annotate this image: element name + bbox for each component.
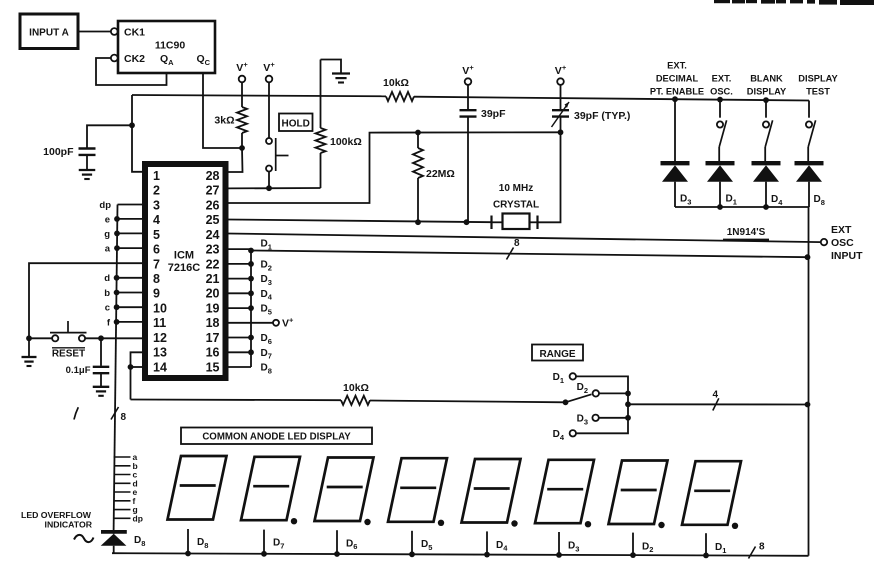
pushbutton HOLD bottom contact [266, 166, 272, 172]
svg-text:b: b [104, 288, 110, 299]
svg-text:10kΩ: 10kΩ [383, 77, 409, 89]
wire pin 16 D7 stub [228, 348, 272, 361]
ground below 100pF [79, 170, 96, 179]
svg-text:20: 20 [206, 287, 220, 301]
svg-text:CRYSTAL: CRYSTAL [493, 200, 539, 211]
LED digit 1 outline [682, 461, 741, 525]
op-amp U1 ICM7216C (28-pin DIP) [145, 164, 226, 378]
wire pin segment c stub [105, 303, 142, 314]
wire pin 26 to oscillator [228, 132, 561, 203]
bus slash 8 (segment lines) [111, 407, 127, 423]
svg-text:8: 8 [759, 542, 765, 553]
wire pin 23 D1 stub [228, 248, 251, 250]
svg-text:19: 19 [206, 302, 220, 316]
capacitor C4 0.1uF [93, 338, 110, 386]
trimmer capacitor C3 39pF [552, 85, 570, 133]
switch ext osc sw [717, 100, 727, 164]
svg-text:ICM: ICM [174, 250, 194, 262]
label 39pF [481, 108, 506, 120]
decimal point digit 6 [364, 519, 370, 525]
node digit D3 on rail [556, 552, 562, 558]
wire range feed line [131, 399, 342, 402]
label 3kOhm [214, 115, 234, 127]
node digit D7 on rail [261, 551, 267, 557]
wire range contacts bracket [576, 376, 628, 433]
ground (reset) [22, 338, 37, 366]
label D2 (digit) [642, 541, 653, 554]
wire 10k to switch common [370, 401, 566, 403]
ground (0.1uF) [93, 387, 110, 396]
svg-text:2: 2 [153, 184, 160, 198]
wire pin segment d stub [104, 273, 142, 284]
label 100kOhm [330, 136, 362, 148]
svg-text:17: 17 [206, 331, 220, 345]
wire QC output down to node [203, 73, 240, 148]
decimal point digit 4 [511, 520, 517, 526]
wire 100k top to ground [321, 60, 342, 74]
svg-text:OSC: OSC [831, 237, 854, 249]
D bus vertical [250, 249, 252, 367]
label D8 (LED) [134, 535, 145, 548]
wire V+ rail right segment [414, 97, 809, 101]
resistor R5 10k (range) [341, 396, 370, 405]
node bracket D3 [625, 415, 631, 421]
wire pin segment e stub [105, 214, 142, 225]
wire diode bottom bus [675, 206, 809, 208]
svg-text:INPUT: INPUT [831, 250, 863, 262]
LED digit 5 outline [388, 458, 447, 522]
node pin7/ground/reset [26, 335, 32, 341]
label 0.1uF [66, 365, 91, 376]
svg-text:23: 23 [206, 243, 220, 257]
node digit D6 on rail [334, 551, 340, 557]
resistor R4 22M [413, 133, 423, 223]
wire pin 15 D8 stub [228, 363, 272, 376]
label box RANGE [532, 345, 583, 361]
svg-text:22: 22 [206, 257, 220, 271]
svg-text:BLANK: BLANK [750, 74, 783, 84]
node digit D1 on rail [703, 553, 709, 559]
svg-text:e: e [105, 214, 110, 225]
pushbutton RESET [50, 321, 87, 341]
svg-text:DISPLAY: DISPLAY [747, 87, 787, 97]
decimal point digit 7 [291, 518, 297, 524]
wire reset to pin 12 [85, 337, 142, 339]
stray mark J [74, 407, 78, 419]
svg-text:OSC.: OSC. [710, 87, 733, 97]
bus slash 8 (bottom rail) [749, 542, 766, 559]
terminal V+ (trimmer) [555, 63, 567, 85]
label RESET (overline) [52, 348, 85, 360]
connector INPUT A [20, 14, 78, 49]
svg-text:1N914'S: 1N914'S [727, 227, 766, 238]
svg-text:7216C: 7216C [168, 262, 200, 274]
svg-text:28: 28 [206, 169, 220, 183]
segment bus vertical [114, 205, 118, 532]
wire digit drive D5 stub [411, 531, 413, 555]
inverter bubble CK1 [111, 28, 118, 35]
node digit D4 on rail [484, 552, 490, 558]
svg-text:18: 18 [206, 316, 220, 330]
bus slash 8 (D lines) [507, 238, 521, 260]
wire pin 7 to reset [29, 263, 142, 338]
svg-text:dp: dp [133, 513, 143, 523]
wire pin 19 D5 stub [228, 304, 272, 317]
svg-text:8: 8 [514, 238, 520, 249]
wire 100pF branch [87, 125, 132, 147]
svg-text:9: 9 [153, 287, 160, 301]
node D bus right [805, 254, 811, 260]
svg-text:EXT.: EXT. [667, 61, 687, 71]
node diode bus col3 [763, 204, 769, 210]
label D1 [726, 194, 737, 207]
svg-text:39pF: 39pF [481, 108, 506, 120]
svg-text:c: c [105, 303, 110, 314]
LED digit 7 outline [241, 457, 300, 520]
terminal V+ pin 18 [228, 315, 294, 329]
svg-text:27: 27 [206, 184, 220, 198]
svg-text:1: 1 [153, 169, 160, 183]
svg-text:11: 11 [153, 316, 166, 330]
svg-text:100kΩ: 100kΩ [330, 136, 362, 148]
terminal V+ (39pF) [462, 63, 474, 85]
capacitor C2 39pF [460, 85, 477, 222]
node digit D2 on rail [630, 552, 636, 558]
wire digit drive D3 stub [558, 532, 560, 555]
wire V+ rail left segment (pin1 to 10k) [132, 95, 386, 96]
LED digit 3 outline [535, 460, 594, 523]
switch display test sw [806, 101, 816, 164]
svg-text:4: 4 [713, 390, 719, 401]
label D1 (bus) [261, 239, 272, 252]
label 10 MHz CRYSTAL [493, 183, 539, 211]
svg-text:6: 6 [153, 243, 160, 257]
label 10kOhm bottom [343, 382, 369, 394]
wire pin segment a stub [105, 244, 142, 255]
label EXT. DECIMAL PT. ENABLE [650, 61, 704, 97]
prescaler U2 11C90 [118, 21, 215, 73]
svg-text:INPUT A: INPUT A [29, 28, 69, 39]
node bracket D2 [625, 391, 631, 397]
svg-text:10 MHz: 10 MHz [499, 183, 533, 194]
label 39pF (TYP.) [574, 110, 630, 122]
label D4 [771, 194, 783, 207]
wire pin 1 riser [132, 95, 142, 172]
wire switch to pin27 line [268, 172, 270, 189]
contact D1 (range) [553, 372, 576, 385]
svg-text:RESET: RESET [52, 349, 85, 360]
label D6 (digit) [346, 538, 357, 551]
contact D4 (range) [553, 429, 576, 442]
label dp [99, 200, 111, 211]
label D4 (digit) [496, 540, 508, 553]
bus slash 4 (range lines) [713, 390, 719, 411]
node range/right bus [805, 402, 811, 408]
svg-text:dp: dp [99, 200, 111, 211]
diode D3 [661, 163, 690, 207]
svg-text:RANGE: RANGE [539, 349, 575, 360]
svg-text:100pF: 100pF [43, 146, 74, 158]
node 22M top [415, 130, 421, 136]
svg-text:DISPLAY: DISPLAY [798, 74, 838, 84]
svg-text:10: 10 [153, 302, 167, 316]
LED digit 2 outline [609, 461, 668, 525]
LED digit 8 outline [168, 456, 227, 520]
svg-text:15: 15 [206, 360, 220, 374]
crystal Y1 10MHz [492, 214, 538, 230]
node 100pF junction [129, 122, 135, 128]
label D7 (digit) [273, 538, 284, 551]
wire INPUT A to CK1 [78, 31, 111, 33]
svg-text:4: 4 [153, 213, 160, 227]
node digit D8 on rail [185, 551, 191, 557]
LED digit 6 outline [315, 458, 374, 522]
node trimmer bottom [558, 129, 564, 135]
node QC/3k/pin28 [239, 145, 245, 151]
svg-text:3kΩ: 3kΩ [214, 115, 234, 127]
label D8 (digit) [197, 537, 208, 550]
svg-text:CK2: CK2 [124, 53, 145, 65]
wire D bus line to right [251, 251, 808, 258]
svg-text:COMMON ANODE LED DISPLAY: COMMON ANODE LED DISPLAY [202, 432, 351, 443]
label LED OVERFLOW INDICATOR [21, 510, 93, 530]
node D bus left [248, 248, 254, 254]
label 22MOhm [426, 168, 455, 180]
wire trimmer to crystal [538, 132, 561, 222]
terminal EXT OSC INPUT [821, 239, 827, 245]
svg-text:11C90: 11C90 [155, 40, 186, 52]
wire pin 22 D2 stub [228, 260, 272, 273]
switch arm (range) [566, 394, 592, 402]
wire digit drive D8 stub [187, 529, 189, 554]
svg-text:EXT: EXT [831, 224, 852, 236]
node digit D5 on rail [409, 551, 415, 557]
wire pin 14 [131, 366, 143, 368]
svg-text:TEST: TEST [806, 87, 830, 97]
wire V+ to switch [268, 82, 270, 138]
decimal point digit 1 [732, 523, 738, 529]
label 1N914'S [723, 227, 769, 240]
svg-text:LED OVERFLOW: LED OVERFLOW [21, 510, 92, 520]
resistor R1 10k (top rail) [386, 92, 414, 101]
wire pin segment b stub [104, 288, 142, 299]
terminal V+ (HOLD switch) [263, 60, 275, 82]
svg-text:26: 26 [206, 198, 220, 212]
ac tilde mark [74, 535, 94, 542]
wire pin 27 line [228, 187, 321, 189]
svg-text:25: 25 [206, 213, 220, 227]
ground (100k) [332, 74, 350, 83]
node rail col3 [763, 97, 769, 103]
svg-text:3: 3 [153, 198, 160, 212]
terminal V+ (3k pullup) [236, 60, 248, 82]
svg-text:13: 13 [153, 346, 167, 360]
wire pin segment g stub [104, 229, 142, 240]
label D1 (digit) [715, 542, 726, 555]
wire pin 25 crystal line [228, 220, 492, 223]
wire pin 13 [131, 352, 143, 399]
wire digit drive D1 stub [705, 533, 707, 555]
node pin13/14 [128, 364, 134, 370]
label box COMMON ANODE LED DISPLAY [181, 428, 372, 445]
decimal point digit 2 [658, 522, 664, 528]
svg-text:EXT.: EXT. [712, 74, 732, 84]
label DISPLAY TEST [798, 74, 838, 97]
label D3 [680, 194, 691, 207]
wire range to right bus [628, 403, 808, 405]
LED overflow diode D8 [101, 531, 127, 553]
svg-text:12: 12 [153, 331, 167, 345]
svg-text:d: d [104, 273, 110, 284]
node range common [563, 399, 569, 405]
diode D8 [795, 163, 824, 207]
resistor R2 3k [237, 82, 247, 148]
wire digit drive D6 stub [336, 530, 338, 554]
svg-text:16: 16 [206, 346, 220, 360]
svg-text:8: 8 [121, 412, 127, 423]
wire right vertical bus [808, 207, 810, 556]
wire QA feedback to CK2 [96, 58, 167, 85]
capacitor C1 100pF [79, 149, 96, 170]
svg-text:39pF (TYP.): 39pF (TYP.) [574, 110, 630, 122]
svg-text:INDICATOR: INDICATOR [45, 520, 93, 530]
svg-text:24: 24 [206, 228, 220, 242]
svg-text:g: g [104, 229, 110, 240]
decimal point digit 3 [585, 521, 591, 527]
pushbutton HOLD actuator [276, 138, 289, 171]
node rail col1 [672, 96, 678, 102]
wire digit drive D2 stub [632, 533, 634, 556]
svg-text:22MΩ: 22MΩ [426, 168, 455, 180]
segment stubs a-dp at display [114, 452, 143, 523]
logo fragment (cropped intersil logotype) [714, 0, 874, 5]
contact D2 (range) [577, 382, 599, 397]
wire pin 3 dp stub [118, 204, 143, 206]
label BLANK DISPLAY [747, 74, 787, 97]
label EXT OSC INPUT [831, 224, 863, 262]
inverter bubble CK2 [111, 55, 118, 62]
node HOLD/pin27 [266, 185, 272, 191]
svg-text:14: 14 [153, 360, 167, 374]
wire pin 17 D6 stub [228, 333, 272, 346]
svg-text:PT. ENABLE: PT. ENABLE [650, 87, 704, 97]
svg-text:a: a [105, 244, 111, 255]
node pin12/cap [98, 335, 104, 341]
wire col1 down [674, 99, 676, 163]
wire pin 24 ext osc line [228, 234, 821, 243]
svg-text:5: 5 [153, 228, 160, 242]
svg-text:0.1μF: 0.1μF [66, 365, 91, 376]
switch blank sw [763, 100, 773, 163]
wire digit drive D7 stub [263, 530, 265, 554]
wire pin 20 D4 stub [228, 289, 273, 302]
node bracket out [625, 401, 631, 407]
node rail col2 [717, 97, 723, 103]
label 10kOhm top [383, 77, 409, 89]
label D5 (digit) [421, 539, 432, 552]
label D8 (diode) [814, 194, 825, 207]
label 100pF [43, 146, 74, 158]
node diode bus col2 [717, 204, 723, 210]
diode D4 [752, 163, 781, 207]
svg-text:DECIMAL: DECIMAL [656, 74, 699, 84]
svg-text:21: 21 [206, 272, 220, 286]
wire pin segment f stub [107, 317, 142, 328]
node crystal/39pF [464, 219, 470, 225]
svg-text:7: 7 [153, 257, 160, 271]
resistor R3 100k [316, 60, 326, 189]
svg-text:CK1: CK1 [124, 27, 145, 39]
wire pin 21 D3 stub [228, 274, 272, 287]
label EXT. OSC. [710, 74, 733, 97]
pushbutton HOLD top contact [266, 138, 272, 144]
svg-text:HOLD: HOLD [282, 119, 310, 130]
contact D3 (range) [577, 414, 599, 427]
svg-text:8: 8 [153, 272, 160, 286]
LED digit 4 outline [462, 459, 521, 523]
decimal point digit 5 [438, 520, 444, 526]
svg-text:10kΩ: 10kΩ [343, 382, 369, 394]
wire bottom common rail [112, 553, 809, 556]
label D3 (digit) [568, 541, 579, 554]
wire node to pin 28 [228, 148, 243, 172]
wire digit drive D4 stub [486, 531, 488, 554]
diode D1 [706, 163, 735, 207]
label box HOLD [279, 114, 313, 132]
wire to reset switch [29, 337, 52, 339]
node crystal/22M [415, 219, 421, 225]
